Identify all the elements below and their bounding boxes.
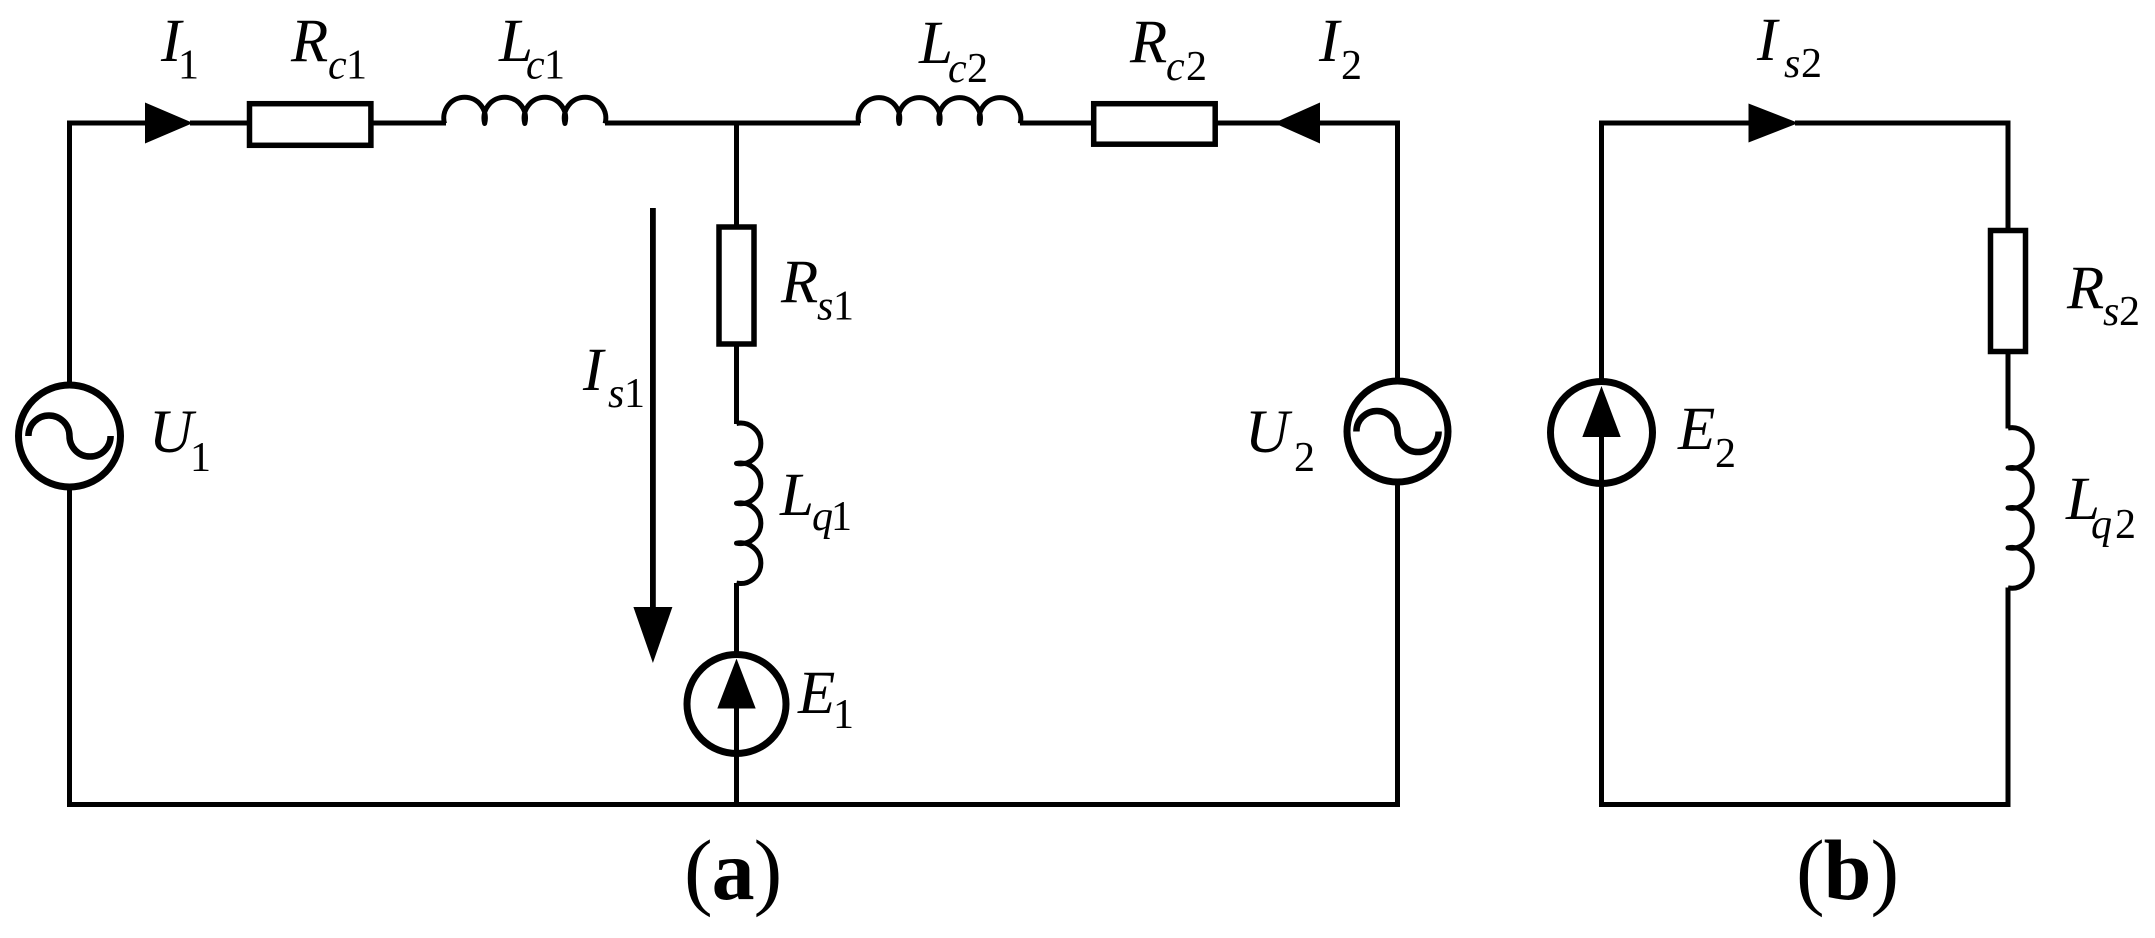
- wire: circuit (b) right vertical lower segment: [2006, 588, 2011, 805]
- arrow Is2 (current direction right): [1749, 104, 1799, 143]
- wire: top right of I2 arrow to corner: [1316, 123, 1398, 383]
- svg-text:1: 1: [833, 284, 854, 330]
- wire: top middle between Lc1 and Lc2 through node: [605, 121, 860, 126]
- resistor Rc2: [1094, 104, 1216, 145]
- svg-text:2: 2: [1294, 435, 1315, 481]
- wire: circuit (a) left vertical upper segment: [67, 121, 72, 386]
- wire: circuit (b) top right of arrow to corner down to Rs2: [1795, 123, 2008, 231]
- wire: between Rs2 and Lq2: [2006, 351, 2011, 429]
- AC source U2: [1347, 381, 1448, 482]
- svg-text:c: c: [948, 46, 967, 92]
- svg-text:1: 1: [178, 43, 199, 89]
- svg-text:1: 1: [346, 43, 367, 89]
- svg-text:2: 2: [967, 46, 988, 92]
- svg-text:2: 2: [2119, 289, 2140, 335]
- svg-text:2: 2: [1341, 43, 1362, 89]
- svg-text:s: s: [2103, 289, 2119, 335]
- AC source U1: [19, 385, 121, 487]
- wire: between Lc2 and Rc2: [1020, 121, 1094, 126]
- svg-text:(a): (a): [684, 822, 781, 918]
- svg-text:q: q: [2091, 502, 2112, 548]
- svg-text:I: I: [1318, 8, 1342, 75]
- svg-text:R: R: [780, 249, 818, 316]
- svg-text:L: L: [779, 462, 814, 529]
- svg-text:R: R: [1129, 9, 1167, 76]
- inductor Lc1: [444, 97, 606, 123]
- svg-text:1: 1: [190, 435, 211, 481]
- resistor Rs2: [1991, 231, 2026, 352]
- wire: circuit (a) top, left of I1 arrow: [70, 121, 151, 126]
- arrow I1 (current direction right): [145, 103, 193, 144]
- wire: circuit (b) top, left of Is2 arrow: [1599, 121, 1753, 126]
- resistor Rc1: [250, 104, 371, 146]
- svg-text:2: 2: [2115, 502, 2136, 548]
- wire: circuit (a) right vertical lower segment: [1395, 482, 1400, 805]
- svg-text:1: 1: [833, 692, 854, 738]
- svg-text:U: U: [1245, 399, 1293, 466]
- wire: between I1 arrow and Rc1: [190, 121, 250, 126]
- svg-text:2: 2: [1715, 431, 1736, 477]
- current source E2: [1551, 382, 1653, 484]
- svg-text:1: 1: [831, 494, 852, 540]
- wire: middle branch from top node down to Rs1: [734, 123, 739, 228]
- svg-text:E: E: [1677, 396, 1715, 463]
- wire: between Lq1 and E1 circle: [734, 583, 739, 657]
- svg-text:c: c: [328, 43, 347, 89]
- wire: circuit (b) bottom horizontal: [1599, 802, 2011, 807]
- svg-text:1: 1: [624, 371, 645, 417]
- svg-text:E: E: [797, 660, 835, 727]
- svg-text:s: s: [608, 371, 624, 417]
- wire: circuit (a) bottom horizontal: [67, 802, 1400, 807]
- svg-text:c: c: [526, 43, 545, 89]
- arrow Is1 (branch current, downward): [650, 208, 656, 615]
- inductor Lq1: [737, 423, 761, 583]
- wire: between Rc1 and Lc1: [373, 121, 446, 126]
- resistor Rs1: [719, 227, 754, 344]
- wire: between Rc2 and I2 arrow: [1215, 121, 1280, 126]
- svg-text:(b): (b): [1796, 822, 1898, 918]
- arrow I2 (current direction left): [1274, 103, 1320, 144]
- svg-text:2: 2: [1186, 44, 1207, 90]
- svg-text:q: q: [812, 494, 833, 540]
- svg-text:s: s: [1784, 41, 1800, 87]
- inductor Lc2: [858, 98, 1021, 124]
- current source E1: [687, 655, 786, 754]
- svg-text:I: I: [582, 337, 606, 404]
- svg-text:I: I: [1756, 7, 1780, 74]
- wire: circuit (b) left vertical upper segment: [1599, 121, 1604, 383]
- wire: between Rs1 and Lq1: [734, 344, 739, 424]
- svg-text:s: s: [817, 284, 833, 330]
- svg-text:R: R: [2066, 255, 2104, 322]
- svg-text:R: R: [290, 8, 328, 75]
- inductor Lq2: [2008, 428, 2032, 589]
- svg-text:c: c: [1166, 44, 1185, 90]
- wire: circuit (a) left vertical lower segment: [67, 487, 72, 805]
- svg-text:1: 1: [544, 43, 565, 89]
- svg-text:2: 2: [1801, 41, 1822, 87]
